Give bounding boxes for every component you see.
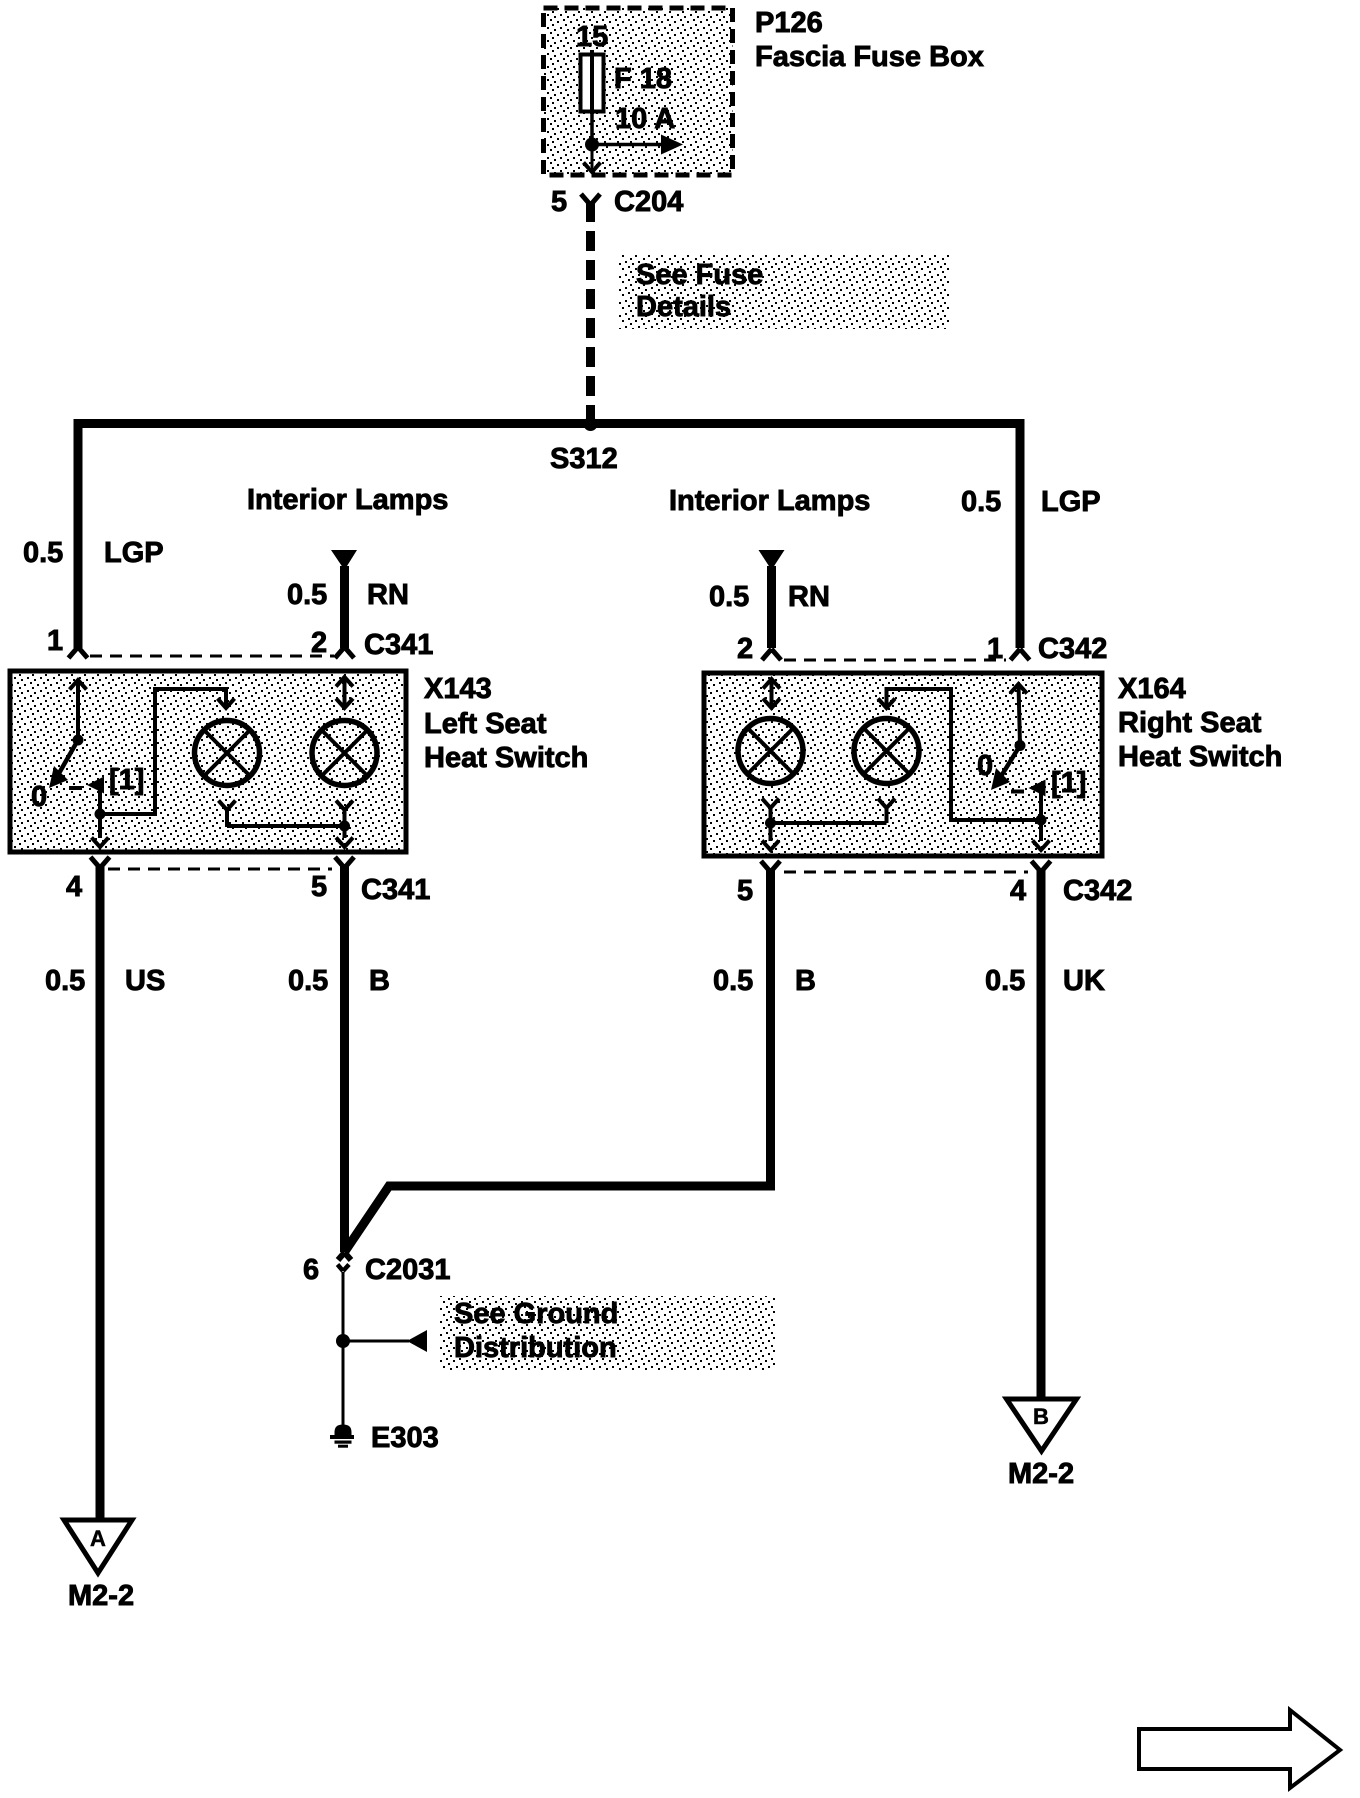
wire dot to pin 5 — [336, 826, 353, 847]
wire node to lamp 4 — [878, 689, 1041, 820]
svg-text:0: 0 — [977, 750, 993, 782]
off-page continuation arrow — [1139, 1710, 1340, 1788]
connector line C341 top dashed — [90, 655, 334, 658]
svg-text:F 18: F 18 — [614, 63, 672, 95]
component label X143 — [424, 673, 588, 774]
switch pivot dot — [73, 735, 84, 746]
svg-text:0.5: 0.5 — [709, 581, 749, 613]
wire node to pin 4 — [92, 814, 109, 847]
switch contact dash — [69, 786, 82, 790]
ground distribution branch wire — [343, 1340, 409, 1343]
fuse F18 — [581, 50, 604, 114]
bus wire S312 — [74, 419, 1025, 428]
wire LGP right drop — [1016, 424, 1025, 649]
svg-text:5: 5 — [551, 186, 567, 218]
fuse box P126 — [544, 8, 733, 175]
svg-text:C342: C342 — [1063, 875, 1132, 907]
svg-text:5: 5 — [737, 875, 753, 907]
svg-text:Right Seat: Right Seat — [1118, 707, 1262, 739]
svg-text:LGP: LGP — [1041, 486, 1101, 518]
wire lamp 4 bottom — [878, 799, 895, 824]
wire LGP left drop — [74, 424, 83, 649]
svg-text:Interior Lamps: Interior Lamps — [669, 485, 870, 517]
ground E303 — [330, 1425, 354, 1448]
wire node to pin 4 X164 — [1033, 820, 1050, 850]
interior lamps feed arrow right — [759, 550, 785, 570]
connector C2031 — [338, 1253, 352, 1272]
svg-text:See Ground: See Ground — [454, 1298, 618, 1330]
switch contact [1] arrow — [87, 777, 104, 794]
connector C204 fork — [581, 194, 600, 205]
svg-text:10 A: 10 A — [615, 103, 675, 135]
ground distribution branch arrow — [407, 1330, 427, 1352]
wire RN left — [340, 566, 349, 648]
connector line C342 top dashed — [784, 659, 1006, 662]
wire pin 2 to lamp 3 — [763, 679, 780, 708]
svg-text:0.5: 0.5 — [288, 965, 328, 997]
svg-text:[1]: [1] — [109, 764, 144, 796]
svg-text:P126: P126 — [755, 7, 823, 39]
connector line C341 bottom dashed — [108, 868, 332, 871]
fuse feed arrow — [592, 135, 683, 155]
lamp 2 — [312, 721, 377, 786]
svg-text:See Fuse: See Fuse — [636, 259, 763, 291]
svg-text:S312: S312 — [550, 443, 618, 475]
svg-text:15: 15 — [576, 21, 608, 53]
svg-text:1: 1 — [47, 625, 63, 657]
ground junction dot — [336, 1334, 350, 1348]
svg-text:2: 2 — [737, 633, 753, 665]
switch pivot dot X164 — [1015, 740, 1026, 751]
svg-text:A: A — [90, 1526, 106, 1551]
switch arm X164 — [991, 746, 1020, 791]
svg-text:Heat Switch: Heat Switch — [1118, 741, 1282, 773]
svg-text:B: B — [1033, 1404, 1049, 1429]
off-page connector triangle B — [1007, 1399, 1077, 1451]
pin 2 fork C341 — [335, 647, 354, 658]
svg-text:C2031: C2031 — [365, 1254, 450, 1286]
pin 5 fork C341 bottom — [335, 857, 354, 868]
svg-text:0.5: 0.5 — [713, 965, 753, 997]
svg-text:4: 4 — [66, 871, 82, 903]
wire UK — [1037, 870, 1046, 1399]
svg-text:B: B — [369, 965, 390, 997]
svg-text:RN: RN — [788, 581, 830, 613]
note See Fuse Details — [619, 255, 950, 329]
junction dot inside fuse box — [585, 138, 599, 152]
wire dot to pin 5 X164 — [762, 823, 779, 850]
component label X164 — [1118, 673, 1282, 773]
svg-text:US: US — [125, 965, 165, 997]
lamp bus wire X164 — [771, 821, 887, 825]
wire RN right — [767, 566, 776, 648]
node dot X164 — [1036, 815, 1047, 826]
pin 1 fork C341 — [69, 647, 88, 658]
dashed wire C204 to S312 — [586, 202, 595, 419]
pin 4 fork C341 bottom — [91, 857, 110, 868]
lamp bus wire X143 — [227, 824, 345, 828]
lamp bus dot X164 — [765, 818, 776, 829]
svg-text:0.5: 0.5 — [23, 537, 63, 569]
svg-text:0.5: 0.5 — [45, 965, 85, 997]
wire fuse to junction — [590, 112, 594, 141]
wire [1] contact to node X164 — [1039, 791, 1043, 820]
svg-text:Left Seat: Left Seat — [424, 708, 547, 740]
pin 5 exit chevron — [584, 163, 601, 173]
switch arm pin 1 arrow X164 — [1010, 684, 1027, 746]
svg-text:4: 4 — [1010, 875, 1026, 907]
svg-text:2: 2 — [311, 627, 327, 659]
lamp 4 — [854, 719, 919, 784]
pin 4 fork C342 bottom — [1032, 861, 1051, 872]
connector line C342 bottom dashed — [784, 871, 1028, 874]
node dot X143 — [95, 809, 106, 820]
switch contact dash X164 — [1011, 790, 1024, 794]
svg-text:Heat Switch: Heat Switch — [424, 742, 588, 774]
wire B left — [340, 866, 349, 1252]
svg-text:C204: C204 — [614, 186, 683, 218]
lamp 3 — [738, 719, 803, 784]
interior lamps feed arrow left — [331, 550, 357, 570]
svg-text:0.5: 0.5 — [985, 965, 1025, 997]
wire junction to pin 5 — [591, 145, 594, 168]
wire B right — [345, 870, 771, 1252]
pin 1 fork C342 — [1011, 649, 1030, 660]
svg-text:0.5: 0.5 — [961, 486, 1001, 518]
svg-text:0: 0 — [31, 781, 47, 813]
svg-text:Details: Details — [636, 291, 731, 323]
pin 5 fork C342 bottom — [761, 861, 780, 872]
svg-text:C342: C342 — [1038, 633, 1107, 665]
svg-text:RN: RN — [367, 579, 409, 611]
svg-text:LGP: LGP — [104, 537, 164, 569]
lamp 1 — [195, 721, 260, 786]
wire lamp 2 bottom — [336, 801, 353, 827]
switch contact [1] arrow X164 — [1029, 780, 1046, 797]
svg-text:C341: C341 — [361, 874, 430, 906]
wire [1] contact to node — [98, 788, 102, 814]
svg-text:6: 6 — [303, 1254, 319, 1286]
svg-text:0.5: 0.5 — [287, 579, 327, 611]
svg-text:5: 5 — [311, 871, 327, 903]
svg-text:Fascia Fuse Box: Fascia Fuse Box — [755, 41, 984, 73]
wire lamp 3 bottom — [762, 799, 779, 824]
wire lamp 1 bottom — [219, 801, 236, 827]
svg-text:E303: E303 — [371, 1422, 439, 1454]
pin 2 fork C342 — [762, 649, 781, 660]
svg-text:UK: UK — [1063, 965, 1105, 997]
splice dot S312 — [584, 417, 598, 431]
note See Ground Distribution — [439, 1296, 775, 1371]
switch arm — [49, 740, 78, 788]
lamp bus dot X143 — [339, 821, 350, 832]
wire pin 2 to lamp 2 — [336, 677, 353, 708]
wire node to lamp 1 — [100, 689, 235, 814]
wire to ground — [342, 1272, 345, 1425]
svg-text:X164: X164 — [1118, 673, 1186, 705]
svg-text:M2-2: M2-2 — [68, 1580, 134, 1612]
switch arm pin 1 arrow — [70, 680, 87, 740]
wire US — [96, 866, 105, 1520]
svg-text:M2-2: M2-2 — [1008, 1458, 1074, 1490]
svg-text:Distribution: Distribution — [454, 1332, 617, 1364]
svg-text:B: B — [795, 965, 816, 997]
switch box X143 — [10, 671, 406, 852]
svg-text:[1]: [1] — [1051, 767, 1086, 799]
svg-text:C341: C341 — [364, 629, 433, 661]
switch box X164 — [704, 673, 1102, 856]
svg-text:X143: X143 — [424, 673, 492, 705]
svg-text:Interior Lamps: Interior Lamps — [247, 484, 448, 516]
off-page connector triangle A — [64, 1520, 132, 1573]
